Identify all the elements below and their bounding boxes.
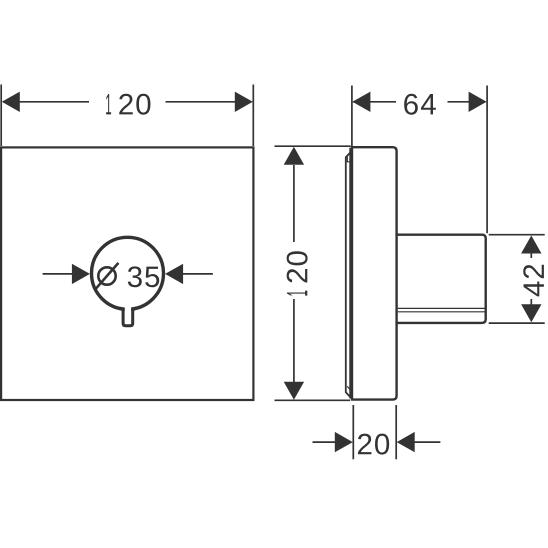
dim Ø35 right arrowhead bbox=[165, 264, 183, 284]
dim 42 top extension line bbox=[489, 234, 545, 236]
dim 120 vertical bottom extension line bbox=[275, 399, 351, 401]
dim 120 vertical top extension line bbox=[275, 145, 351, 147]
side view rear flange outline bbox=[346, 151, 352, 399]
side view spout groove line lower bbox=[398, 311, 485, 313]
dim 120 vertical line top segment bbox=[293, 165, 295, 242]
label 35 bbox=[128, 266, 159, 287]
label 20 bbox=[358, 434, 389, 455]
label 64 bbox=[404, 94, 436, 115]
dim 20 line right segment bbox=[414, 441, 441, 443]
handle stem right flare bbox=[133, 308, 136, 313]
dim Ø35 right leader line bbox=[183, 273, 213, 275]
side view body outline bbox=[352, 147, 397, 399]
side view spout outline bbox=[397, 235, 486, 323]
dim 64 left arrowhead bbox=[352, 92, 370, 112]
dim 20 right arrowhead bbox=[397, 432, 415, 452]
dim 42 line bottom segment bbox=[530, 299, 532, 305]
front plate square outline bbox=[1, 147, 253, 400]
dim 20 left extension line bbox=[352, 405, 354, 459]
dim 42 bottom arrowhead bbox=[521, 304, 541, 322]
handle stem left flare bbox=[120, 308, 123, 313]
dim 120 top line right segment bbox=[166, 101, 252, 103]
dim 64 left extension line bbox=[351, 86, 353, 147]
side view flange bottom chamfer detail bbox=[347, 386, 350, 390]
dim 120 top right extension line bbox=[252, 85, 254, 147]
dim 42 bottom extension line bbox=[489, 322, 545, 324]
label 120 vertical bbox=[287, 251, 308, 295]
dim 64 right extension line bbox=[486, 86, 488, 234]
dim 120 vertical line bottom segment bbox=[293, 299, 295, 382]
dim 64 line left segment bbox=[353, 101, 396, 103]
side view spout groove line upper bbox=[398, 307, 485, 309]
dim 120 top left extension line bbox=[0, 85, 2, 147]
diameter symbol slash bbox=[95, 263, 118, 289]
handle circle bbox=[92, 237, 164, 309]
dim 120 top line left segment bbox=[3, 101, 89, 103]
handle stem outline bbox=[123, 309, 133, 326]
label 120 top bbox=[106, 94, 150, 115]
side view body front face line bbox=[349, 148, 351, 399]
dim 120 top left arrowhead bbox=[2, 92, 20, 112]
dim 42 line top segment bbox=[530, 252, 532, 258]
dim 120 top right arrowhead bbox=[235, 92, 253, 112]
dim 42 top arrowhead bbox=[521, 236, 541, 254]
dim Ø35 left leader line bbox=[43, 273, 72, 275]
diameter symbol circle bbox=[98, 267, 115, 284]
dim Ø35 left arrowhead bbox=[72, 264, 90, 284]
dim 120 vertical top arrowhead bbox=[284, 147, 304, 165]
dim 20 line left segment bbox=[313, 441, 337, 443]
dim 64 line right segment bbox=[448, 101, 486, 103]
side view flange top chamfer detail bbox=[347, 155, 350, 162]
label 42 vertical bbox=[523, 265, 544, 297]
handle stem white mask bbox=[125, 300, 131, 324]
dim 64 right arrowhead bbox=[469, 92, 487, 112]
dim 20 left arrowhead bbox=[335, 432, 353, 452]
dim 20 right extension line bbox=[395, 405, 397, 459]
dim 120 vertical bottom arrowhead bbox=[284, 382, 304, 400]
